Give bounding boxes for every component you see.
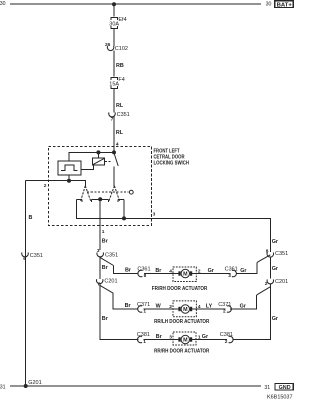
svg-text:C381: C381 (220, 332, 233, 338)
connector C351 pin 6 (22, 252, 43, 262)
svg-text:2: 2 (169, 304, 172, 310)
fuse Ef4 30A (109, 17, 126, 28)
wire actuator to C381-2, color Gr (196, 339, 227, 341)
svg-text:W: W (156, 303, 162, 309)
row1 riser to C351-8 (236, 262, 257, 273)
svg-text:Gr: Gr (208, 268, 215, 274)
svg-text:RB: RB (116, 63, 124, 69)
svg-text:Br: Br (155, 268, 162, 274)
svg-text:RR/RH DOOR ACTUATOR: RR/RH DOOR ACTUATOR (154, 349, 210, 355)
svg-text:8: 8 (144, 273, 147, 279)
svg-text:4: 4 (169, 269, 172, 275)
RR/RH door actuator dashed box (173, 332, 196, 345)
label FRONT LEFT CETRAL DOOR LOCKING SWICH (154, 149, 190, 167)
svg-text:Gr: Gr (240, 268, 247, 274)
timer bottom tap (68, 175, 70, 181)
svg-text:Br: Br (102, 265, 109, 271)
svg-text:C371: C371 (137, 302, 150, 308)
svg-text:Br: Br (102, 239, 109, 245)
svg-text:26: 26 (105, 42, 111, 48)
connector C361 pin 3 (225, 267, 238, 280)
connector C371 pin 1 (137, 302, 150, 315)
svg-text:3: 3 (153, 211, 156, 217)
FR/RH door actuator dashed box (173, 267, 196, 282)
svg-text:C371: C371 (218, 302, 231, 308)
motor M row1 (173, 269, 196, 277)
svg-text:31: 31 (264, 385, 270, 391)
connector C361 pin 8 (137, 267, 150, 280)
node GND box (275, 383, 293, 391)
wire coil bottom to timer (81, 165, 93, 170)
svg-text:B: B (29, 215, 33, 221)
junction common tap (98, 197, 102, 201)
wire C371-1 to actuator, color W (144, 308, 173, 310)
svg-text:Br: Br (125, 267, 132, 273)
svg-text:LY: LY (206, 303, 213, 309)
svg-text:RL: RL (116, 130, 124, 136)
connector C351 pin 7 (109, 112, 130, 122)
ground G201 junction (24, 384, 28, 388)
row2 riser to C201-2 (230, 295, 257, 309)
branch to row 1 (100, 258, 113, 266)
connector C201 pin 2 (265, 279, 288, 287)
RR/LH door actuator dashed box (173, 301, 196, 317)
svg-text:C201: C201 (104, 278, 117, 284)
left ground wire, color B (25, 181, 27, 386)
junction timer tap (67, 179, 71, 183)
svg-text:LOCKING SWICH: LOCKING SWICH (154, 160, 190, 166)
switch terminal bars (77, 199, 124, 202)
svg-text:GND: GND (279, 385, 291, 391)
wire actuator to C371-2, color LY (196, 308, 225, 310)
wire fuse Ef4 to C102 (113, 29, 115, 47)
svg-text:C361: C361 (225, 267, 238, 273)
wire actuator to C361-3, color Gr (196, 273, 230, 275)
connector C201 pin 8 (96, 278, 117, 287)
branch to row 2 (100, 286, 113, 294)
svg-text:C361: C361 (137, 267, 150, 273)
wire bus 30 (10, 3, 261, 5)
svg-text:M: M (183, 272, 188, 278)
wire bus 31 (10, 385, 261, 387)
connector C381 pin 1 (137, 332, 150, 345)
wire U loop (77, 199, 124, 218)
svg-text:31: 31 (0, 384, 6, 390)
svg-text:2: 2 (225, 339, 228, 345)
svg-text:Gr: Gr (240, 303, 247, 309)
svg-text:BAT+: BAT+ (277, 2, 293, 8)
right bus: connector C351 pin 8 (266, 249, 288, 258)
wire C381-1 to actuator, color Br (144, 339, 174, 341)
svg-text:1: 1 (143, 309, 146, 315)
svg-text:F4: F4 (118, 77, 124, 83)
connector C102 pin 26 (105, 42, 128, 52)
svg-text:15A: 15A (109, 81, 119, 87)
svg-text:3: 3 (228, 273, 231, 279)
svg-text:Br: Br (156, 334, 163, 340)
svg-text:7: 7 (111, 116, 114, 122)
connector C351 pin 3 center column (97, 248, 118, 258)
svg-text:Gr: Gr (202, 334, 209, 340)
svg-text:Gr: Gr (272, 239, 279, 245)
junction at relay coil riser (96, 150, 100, 154)
wire bus30 to fuse Ef4 (113, 4, 115, 16)
relay contact arm (114, 153, 118, 166)
svg-text:1: 1 (102, 229, 105, 235)
svg-text:C351: C351 (30, 253, 43, 259)
switch internal top wire (69, 152, 114, 161)
timer unit box (58, 161, 81, 175)
svg-text:FR/RH DOOR ACTUATOR: FR/RH DOOR ACTUATOR (152, 286, 208, 292)
pin 2 wire (26, 181, 86, 186)
manual knob terminal circle (129, 190, 133, 194)
pin 1 wire down from common (99, 199, 101, 250)
svg-text:2: 2 (223, 309, 226, 315)
svg-text:M: M (183, 338, 188, 344)
motor M row3 (173, 335, 196, 343)
svg-text:K6B15037: K6B15037 (267, 395, 293, 400)
svg-text:Br: Br (102, 316, 109, 322)
svg-text:30: 30 (266, 1, 272, 7)
fuse F4 15A (109, 77, 125, 88)
wire C361-8 to actuator, color Br (144, 273, 173, 275)
right changeover switch (109, 186, 120, 202)
dashed actuation link coil to contact (105, 161, 113, 163)
relay coil K (93, 158, 105, 165)
svg-text:Br: Br (125, 303, 132, 309)
svg-text:2: 2 (265, 281, 268, 287)
wire coil riser (97, 152, 99, 158)
pulse waveform symbol (61, 165, 78, 171)
svg-text:8: 8 (266, 249, 269, 255)
svg-text:C351: C351 (275, 251, 288, 257)
front left central door locking switch dashed box (48, 146, 151, 225)
svg-text:G201: G201 (28, 380, 41, 386)
left changeover switch (80, 186, 91, 202)
svg-text:Gr: Gr (272, 266, 279, 272)
node BAT+ box (275, 1, 294, 9)
svg-text:C351: C351 (117, 112, 130, 118)
junction U to pin3 (122, 216, 126, 220)
svg-text:Gr: Gr (272, 316, 279, 322)
svg-text:30A: 30A (109, 21, 119, 27)
wire C351 to switch pin 4, color RL (113, 117, 115, 153)
svg-text:3: 3 (169, 335, 172, 341)
wire C201-8 down to row 3, color Br (100, 283, 138, 339)
svg-text:1: 1 (143, 339, 146, 345)
wire C351-8 to C201-2, color Gr (269, 257, 271, 279)
svg-text:2: 2 (44, 183, 47, 189)
wire C201-2 down to row 3, color Gr (233, 284, 271, 340)
wire contact to right switch (113, 166, 115, 185)
svg-text:RL: RL (116, 103, 124, 109)
motor M row2 (173, 305, 196, 313)
svg-text:C201: C201 (275, 279, 288, 285)
wire C102 to fuse F4, color RB (113, 50, 115, 76)
svg-text:M: M (183, 307, 188, 313)
pin 3 wire to right bus (124, 218, 270, 252)
svg-text:C351: C351 (105, 253, 118, 259)
svg-text:Ef4: Ef4 (118, 17, 126, 23)
svg-text:6: 6 (23, 256, 26, 262)
connector C371 pin 2 (218, 302, 231, 315)
svg-text:RR/LH DOOR ACTUATOR: RR/LH DOOR ACTUATOR (154, 319, 210, 325)
wire fuse F4 to C351, color RL (113, 89, 115, 113)
svg-text:3: 3 (97, 248, 100, 254)
svg-text:C102: C102 (115, 46, 128, 52)
connector C381 pin 2 (220, 332, 233, 345)
dashed mechanical link of switches (87, 191, 129, 193)
wire C351-3 to C201-8, color Br (99, 257, 101, 280)
svg-text:C381: C381 (137, 332, 150, 338)
junction at pin4 feed (112, 150, 116, 154)
junction on bus 30 (112, 2, 116, 6)
svg-text:30: 30 (0, 1, 6, 7)
